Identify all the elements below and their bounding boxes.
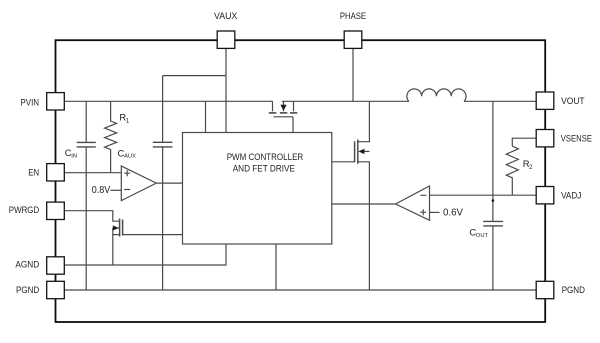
pin PGND left (47, 281, 65, 298)
wire COUT to PGND net (492, 226, 494, 290)
svg-text:IN: IN (71, 154, 77, 160)
pin VOUT (536, 92, 554, 109)
pin VAUX (217, 31, 235, 48)
wire EN line (65, 172, 122, 174)
svg-text:OUT: OUT (476, 233, 489, 239)
wire CAUX to PGND net (162, 147, 164, 290)
svg-text:PVIN: PVIN (20, 98, 39, 109)
capacitor COUT (483, 221, 503, 226)
svg-text:2: 2 (529, 164, 533, 171)
op-amp enable comparator (121, 166, 156, 201)
wire controller to PGND stub (275, 244, 277, 290)
wire 0.8V reference stub (110, 189, 121, 191)
wire comparator output to controller (156, 182, 182, 184)
wire PVIN stub into controller (205, 101, 207, 132)
wire feedback line to VADJ (430, 194, 537, 196)
wire PHASE drop (352, 49, 354, 102)
svg-text:1: 1 (126, 118, 130, 125)
transistor high-side P-FET (269, 101, 298, 132)
wire AGND line to controller (65, 244, 227, 265)
wire VSENSE to R2 (512, 138, 536, 146)
pin EN (47, 164, 65, 181)
wire CIN to PGND net (85, 147, 87, 290)
svg-text:EN: EN (28, 167, 39, 178)
wire PGND net line (65, 289, 537, 291)
wire CAUX feed from VAUX (163, 76, 226, 143)
PWM controller block U1 (183, 133, 332, 245)
svg-text:PWM CONTROLLER: PWM CONTROLLER (227, 152, 304, 163)
wire PWRGD line (65, 211, 120, 222)
module outline (56, 40, 546, 322)
svg-text:AUX: AUX (124, 154, 136, 160)
wire 0.6V reference stub (430, 211, 440, 213)
capacitor CIN (77, 142, 96, 147)
transistor PWRGD open-drain FET (113, 219, 123, 266)
pin VADJ (536, 187, 554, 204)
pin VSENSE (536, 130, 554, 147)
pin PVIN (47, 93, 65, 110)
svg-text:VOUT: VOUT (561, 96, 585, 107)
resistor R1 (105, 101, 117, 172)
svg-text:AGND: AGND (15, 260, 39, 271)
junction dot on feedback crossing (492, 199, 495, 202)
svg-text:VADJ: VADJ (561, 191, 581, 202)
wire COUT branch from VOUT rail (492, 101, 494, 221)
svg-text:PGND: PGND (562, 285, 585, 296)
wire PWRGD FET gate to controller (123, 234, 183, 236)
pin PHASE (344, 31, 362, 48)
svg-text:0.6V: 0.6V (443, 207, 463, 218)
svg-text:VSENSE: VSENSE (561, 133, 592, 144)
wire PVIN rail right segment (switch node to inductor) (282, 100, 409, 102)
resistor R2 (506, 146, 518, 195)
wire VAUX drop into controller (225, 49, 227, 133)
svg-text:AND FET DRIVE: AND FET DRIVE (233, 164, 295, 175)
transistor low-side N-FET (332, 101, 370, 290)
svg-text:0.8V: 0.8V (92, 185, 111, 196)
svg-text:VAUX: VAUX (214, 11, 238, 22)
svg-text:PWRGD: PWRGD (9, 205, 40, 216)
wire CIN branch from PVIN (85, 101, 87, 142)
pin PWRGD (47, 202, 65, 219)
pin PGND right (536, 281, 554, 298)
wire error amp output to controller (332, 203, 396, 205)
svg-text:PHASE: PHASE (340, 11, 366, 22)
pin AGND (47, 257, 65, 274)
wire VOUT rail (inductor to VOUT pin) (464, 100, 536, 102)
inductor L1 (407, 89, 466, 102)
capacitor CAUX (153, 142, 173, 147)
wire PVIN rail left segment (65, 100, 273, 102)
svg-text:PGND: PGND (16, 285, 39, 296)
op-amp error amplifier (396, 186, 430, 220)
